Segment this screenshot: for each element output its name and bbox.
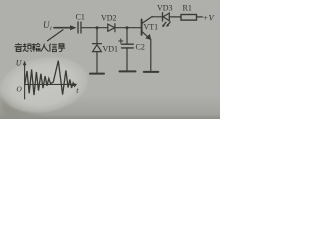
svg-text:O: O — [16, 84, 22, 93]
wire VD1 to ground — [96, 52, 98, 73]
label VD3 — [157, 4, 173, 13]
svg-text:R1: R1 — [183, 4, 192, 13]
label Ui — [43, 20, 52, 32]
diode VD2 — [108, 24, 115, 32]
wire VD3 to R1 — [169, 16, 181, 18]
svg-text:VD2: VD2 — [101, 14, 117, 23]
ground (emitter) — [144, 71, 159, 73]
svg-text:VT1: VT1 — [144, 23, 159, 32]
wire VD2 to node B — [115, 27, 127, 29]
node A junction dot — [96, 26, 99, 29]
wire emitter down — [150, 39, 152, 71]
bottom-left corner shadow — [0, 93, 46, 119]
highlight ellipse behind waveform — [0, 49, 94, 120]
label VD1 — [103, 45, 119, 54]
capacitor C1 — [78, 22, 81, 33]
wire C2 to ground — [126, 48, 128, 71]
label C1 — [76, 13, 85, 22]
node B junction dot — [126, 26, 129, 29]
label VT1 — [144, 23, 159, 32]
svg-text:+: + — [203, 13, 208, 23]
text 音频输入信号 (hand-drawn strokes) — [14, 43, 65, 52]
leader line from caption to input — [48, 30, 64, 41]
bottom dark band — [0, 95, 220, 119]
label R1 — [183, 4, 192, 13]
wire node A to VD2 — [97, 27, 108, 29]
label VD2 — [101, 14, 117, 23]
wire node B to base — [127, 27, 141, 29]
svg-text:VD1: VD1 — [103, 45, 119, 54]
input signal arrow — [54, 25, 77, 30]
wire node B down to C2 — [126, 28, 128, 44]
diode VD1 — [93, 44, 102, 52]
graph label t — [76, 86, 79, 95]
LED VD3 — [163, 13, 170, 21]
label C2 — [136, 43, 145, 52]
graph axis U (vertical) — [23, 61, 27, 99]
capacitor C2 — [122, 44, 134, 48]
wire collector to VD3 — [152, 16, 162, 18]
svg-text:C2: C2 — [136, 43, 145, 52]
audio waveform — [25, 61, 76, 95]
page background — [0, 0, 220, 119]
label +V — [203, 13, 216, 23]
graph label U — [16, 58, 23, 67]
svg-text:VD3: VD3 — [157, 4, 173, 13]
graph axis t (horizontal) — [25, 83, 78, 86]
transistor VT1 — [142, 17, 153, 41]
polarity + of C2 — [119, 39, 123, 43]
ground (C2 branch) — [120, 70, 136, 72]
graph label O — [16, 84, 22, 93]
svg-text:U: U — [43, 20, 50, 30]
wire C1 to node A — [81, 27, 97, 29]
wire node A down to VD1 — [96, 28, 98, 44]
svg-text:C1: C1 — [76, 13, 85, 22]
wire R1 to +V — [197, 16, 203, 18]
LED light arrows — [162, 22, 170, 27]
resistor R1 — [181, 15, 197, 21]
ground (VD1 branch) — [90, 73, 104, 75]
